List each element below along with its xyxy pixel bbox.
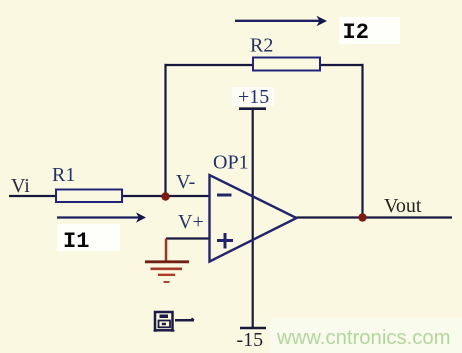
svg-text:Vout: Vout [384, 195, 422, 217]
svg-text:+15: +15 [238, 86, 269, 108]
svg-text:I2: I2 [343, 20, 369, 45]
svg-text:-15: -15 [237, 329, 264, 351]
svg-text:V+: V+ [178, 211, 204, 233]
svg-text:www.cntronics.com: www.cntronics.com [276, 327, 451, 349]
svg-text:R2: R2 [250, 35, 273, 57]
svg-text:OP1: OP1 [213, 152, 249, 174]
svg-text:I1: I1 [63, 229, 89, 254]
svg-text:Vi: Vi [11, 175, 30, 197]
svg-text:R1: R1 [52, 164, 75, 186]
svg-text:V-: V- [176, 171, 195, 193]
